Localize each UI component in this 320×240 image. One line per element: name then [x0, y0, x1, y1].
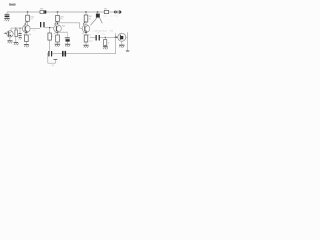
node rail-pot junction [97, 11, 99, 13]
resistor R3 [56, 15, 60, 21]
wire R4 base-bias chain [49, 28, 51, 52]
resistor R9 to ground [104, 40, 107, 46]
node rail box R2 [40, 10, 44, 13]
wire Q5 collector [126, 32, 128, 51]
capacitor C8 on rail [62, 51, 64, 57]
arrow Q4 emitter [82, 32, 84, 34]
node bridge-cap2 [19, 28, 20, 29]
wire Q3 collector coupling [58, 23, 83, 28]
wire input drop [6, 12, 8, 18]
svg-text:5%: 5% [60, 19, 63, 21]
resistor box1 [15, 30, 18, 37]
resistor R1 [26, 15, 30, 21]
wire Q5 junction vertical [115, 33, 117, 54]
transistor Q5 [118, 33, 126, 41]
potentiometer P1 [96, 14, 100, 18]
node collector terminal [126, 50, 129, 52]
arrow collector Q2 [25, 21, 27, 24]
ground (cap2) [19, 37, 22, 39]
wire C3 to Q3 base [45, 27, 54, 29]
capacitor C5 [96, 35, 97, 41]
wire Q1 emitter [9, 37, 11, 40]
resistor R6 [56, 35, 60, 42]
wire R1 drop [27, 12, 29, 25]
ground (R6) [55, 43, 61, 45]
svg-text:5%: 5% [30, 19, 33, 21]
arrow Q5 base [117, 37, 118, 38]
wire cap2 chain [19, 28, 21, 37]
wire pot left leg [90, 18, 97, 26]
node R4 top junction [49, 27, 50, 28]
svg-text:zu: zu [110, 15, 112, 17]
wire Q2 emitter to box2 [25, 32, 27, 44]
node rail-R1 junction [27, 11, 29, 13]
wire pot drop [97, 12, 99, 14]
ground (C6) [103, 46, 108, 48]
ground (box2) [24, 44, 29, 46]
resistor R4 [48, 33, 52, 40]
node rail-R5 junction [85, 11, 87, 13]
capacitor C3 [40, 22, 41, 27]
capacitor C7 on rail [48, 51, 49, 56]
wire input arrow to Q1 base [4, 32, 6, 34]
node bridge-box1 [15, 28, 16, 29]
wire box1 stubs [15, 28, 17, 42]
wire Q1 collector up and bridge [11, 28, 23, 31]
ground (R8) [83, 44, 88, 46]
svg-text:4,7n: 4,7n [101, 34, 105, 36]
transistor Q1 (leftmost) [7, 31, 13, 37]
resistor R5 [84, 15, 88, 22]
transistor Q2 [23, 25, 31, 33]
node Q3 collector junction [57, 22, 59, 24]
wire Q5 emitter [121, 41, 123, 45]
ground (input) [4, 18, 9, 20]
capacitor C4 electrolytic [65, 36, 70, 39]
wire Q3 emitter [57, 32, 59, 44]
transistor Q3 [54, 25, 62, 33]
svg-text:0,5M log. Regl: 0,5M log. Regl [93, 30, 106, 32]
wire bypass chain from emitter [58, 32, 68, 37]
wire R9 chain [104, 37, 106, 46]
ground (box1) [14, 42, 19, 44]
wire Q2 collector to C3 [30, 27, 40, 29]
wire pot right leg [100, 18, 103, 24]
svg-text:Bild8: Bild8 [9, 3, 16, 7]
svg-text:9 V=: 9 V= [114, 15, 118, 17]
wire C5 coupling [90, 36, 118, 38]
node Q4 emitter junction [85, 31, 87, 33]
arrow Q3 emitter [54, 32, 56, 34]
transistor Q4 [82, 25, 90, 33]
connector socket arrow [118, 11, 121, 14]
node Q2 emitter junction [25, 31, 27, 33]
node rail-R3 junction [57, 11, 59, 13]
wire battery loop [48, 54, 56, 64]
resistor R10 on rail [104, 10, 108, 13]
arrow Q2 emitter [24, 33, 26, 35]
svg-text:1k: 1k [108, 43, 110, 45]
arrow collector Q4 [83, 21, 85, 24]
ground (C4) [65, 43, 70, 45]
wire R5 drop [85, 12, 87, 25]
resistor box2 [25, 35, 29, 42]
microphone MIC input element [5, 14, 10, 15]
wire top rail [7, 11, 114, 13]
svg-text:1,5k: 1,5k [103, 15, 106, 17]
node Q3 emitter junction [57, 31, 59, 33]
wire R3 drop [57, 12, 59, 25]
switch contact bar [54, 58, 58, 60]
connector plug [114, 11, 116, 13]
arrow collector Q3 [55, 21, 57, 24]
capacitor C2 [18, 32, 21, 35]
wire Q4 emitter [85, 32, 87, 45]
node C6 junction [105, 37, 106, 38]
ground (Q5) [119, 44, 125, 46]
wire bottom rail [47, 53, 116, 55]
node Q5 base junction [115, 36, 117, 38]
svg-text:5%: 5% [89, 18, 92, 20]
resistor R8 [84, 35, 88, 42]
svg-text:AC122: AC122 [62, 31, 68, 34]
ground (Q1 emitter) [7, 40, 12, 42]
